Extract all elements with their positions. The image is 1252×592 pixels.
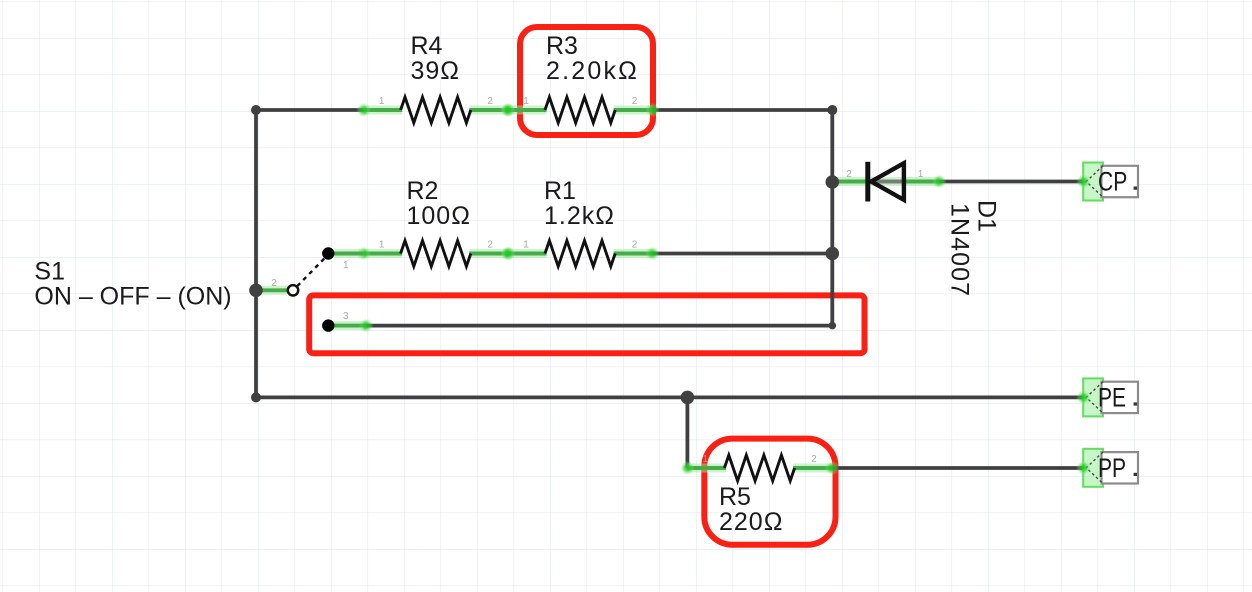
- connector PE: [1076, 378, 1138, 416]
- wire left bus vertical: [254, 110, 258, 397]
- resistor R3: [501, 97, 660, 123]
- svg-text:D1: D1: [973, 200, 1001, 232]
- svg-text:1: 1: [379, 96, 385, 107]
- svg-text:ON – OFF – (ON): ON – OFF – (ON): [34, 283, 231, 311]
- svg-text:1.2kΩ: 1.2kΩ: [544, 202, 615, 230]
- svg-text:R4: R4: [411, 32, 443, 60]
- svg-text:2: 2: [846, 169, 852, 180]
- switch S1 pin1 dot: [322, 247, 334, 259]
- svg-text:2: 2: [632, 96, 638, 107]
- svg-text:1: 1: [379, 239, 385, 250]
- svg-text:PP: PP: [1098, 454, 1126, 484]
- svg-text:R1: R1: [544, 177, 576, 205]
- resistor R1: [501, 241, 660, 267]
- svg-text:1: 1: [343, 260, 349, 271]
- wire R5 pin2 to PP connector: [832, 466, 1084, 470]
- resistor R5: [680, 455, 839, 481]
- junction dot PE row branch: [681, 391, 695, 405]
- switch S1 pin3 dot: [322, 319, 334, 331]
- switch S1 pivot circle: [288, 285, 298, 295]
- svg-text:2: 2: [487, 239, 493, 250]
- svg-text:2: 2: [271, 278, 277, 289]
- svg-text:2: 2: [487, 96, 493, 107]
- svg-text:1: 1: [523, 239, 529, 250]
- svg-text:220Ω: 220Ω: [719, 508, 783, 536]
- wire top row to R4 pin1: [256, 108, 364, 112]
- junction dot row2 on right bus: [826, 247, 840, 261]
- wire branch down to R5: [686, 397, 690, 468]
- svg-text:39Ω: 39Ω: [411, 57, 461, 85]
- diode D1: [832, 162, 946, 202]
- corner dot top-right: [827, 105, 837, 115]
- wire right bus vertical: [830, 110, 834, 326]
- junction dot D1 on right bus: [826, 175, 840, 189]
- svg-text:100Ω: 100Ω: [407, 202, 471, 230]
- svg-text:2: 2: [811, 454, 817, 465]
- svg-text:2: 2: [632, 239, 638, 250]
- switch S1 pin2 leg: [256, 286, 288, 295]
- wire PE row horizontal: [256, 395, 1083, 399]
- svg-text:2.20kΩ: 2.20kΩ: [546, 57, 639, 85]
- svg-text:1: 1: [523, 96, 529, 107]
- svg-text:R5: R5: [719, 483, 751, 511]
- svg-text:1: 1: [703, 454, 709, 465]
- svg-text:S1: S1: [34, 258, 65, 286]
- switch S1 pin1 leg: [328, 249, 363, 258]
- wire row2 R1 pin2 to right bus: [653, 252, 833, 256]
- svg-text:R3: R3: [546, 32, 578, 60]
- corner dot top-left: [251, 105, 261, 115]
- end dot right bus bottom: [829, 322, 837, 330]
- connector PP: [1076, 449, 1138, 487]
- switch S1 lever dashed: [297, 258, 325, 286]
- red annotation around row3 wire: [309, 295, 864, 353]
- wire row3 S1 pin3 to right bus: [366, 324, 832, 328]
- wire top row R3 pin2 to right bus: [653, 108, 833, 112]
- svg-text:3: 3: [343, 311, 349, 322]
- svg-text:R2: R2: [407, 177, 439, 205]
- corner dot bottom-left: [251, 392, 261, 402]
- svg-text:PE: PE: [1098, 383, 1126, 413]
- resistor R4: [356, 97, 515, 123]
- junction dot S1 pin2 on left bus: [249, 284, 263, 298]
- resistor R2: [356, 241, 515, 267]
- svg-text:1N4007: 1N4007: [946, 203, 974, 297]
- svg-text:1: 1: [918, 169, 924, 180]
- wire D1 pin1 to CP connector: [939, 180, 1083, 184]
- connector CP: [1076, 163, 1138, 201]
- red annotation around R5: [704, 439, 835, 545]
- svg-text:CP: CP: [1098, 167, 1127, 197]
- red annotation around R3: [520, 27, 653, 135]
- switch S1 pin3 leg: [328, 318, 373, 332]
